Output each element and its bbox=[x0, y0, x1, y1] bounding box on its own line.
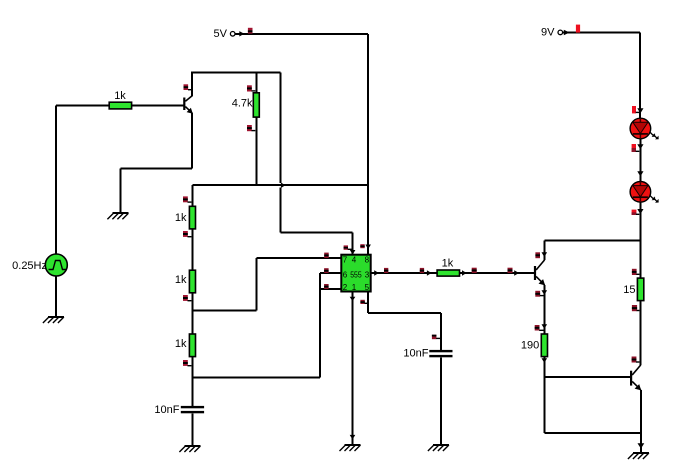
current arrow out of LED1 bbox=[637, 144, 643, 149]
pin indicator square pin3 wire left end bbox=[384, 268, 388, 273]
wire chain of resistors: rail to R3 bbox=[191, 185, 193, 206]
pin indicator square near pin 4 bbox=[344, 245, 352, 249]
resistor R7 190 (vertical) bbox=[521, 334, 548, 357]
ground (signal generator) bbox=[43, 317, 64, 323]
wire Q2 emitter down to R7 bbox=[544, 285, 546, 334]
pin indicator square R3 top bbox=[183, 196, 191, 202]
pin indicator square R4 bottom bbox=[183, 295, 191, 301]
svg-text:4: 4 bbox=[352, 255, 357, 264]
svg-text:0.25Hz: 0.25Hz bbox=[12, 260, 47, 272]
resistor R5 1k (vertical) bbox=[175, 334, 196, 357]
svg-text:1k: 1k bbox=[114, 90, 126, 102]
resistor R8 15 (vertical) bbox=[623, 278, 644, 301]
pin indicator square near pin 7 bbox=[324, 253, 329, 258]
pin indicator square LED1 cathode (half bright) bbox=[632, 144, 640, 152]
transistor Q3 (NPN) bbox=[630, 365, 641, 391]
svg-text:10nF: 10nF bbox=[403, 347, 428, 359]
wire generator to ground bbox=[55, 276, 57, 317]
pin indicator square at 5V terminal bbox=[248, 28, 253, 34]
svg-text:3: 3 bbox=[365, 270, 370, 279]
wire collector rail (top) bbox=[192, 72, 280, 74]
pin indicator square R6 out bbox=[472, 268, 477, 273]
current arrow below pin 1 bbox=[350, 297, 356, 302]
pin indicator square Q2 collector bbox=[535, 252, 540, 258]
svg-text:6: 6 bbox=[343, 270, 348, 279]
pin indicator square 4.7k bottom bbox=[247, 125, 255, 131]
wire LED rail (Q2 collector to LED column) bbox=[544, 239, 640, 241]
capacitor C2 10nF bbox=[403, 347, 452, 359]
transistor Q1 (NPN) bbox=[183, 95, 193, 113]
pin indicator square LED1 anode (bright) bbox=[632, 106, 639, 113]
pin indicator square Q2 base bbox=[508, 268, 513, 273]
wire Q1 emitter down and to ground bbox=[120, 113, 192, 213]
current arrow below Q2 emitter bbox=[542, 290, 548, 295]
current arrow into pin 4 bbox=[350, 250, 356, 255]
wire 9V rail bbox=[563, 33, 641, 119]
wire 555 pin 5 to capacitor C2 bbox=[368, 292, 441, 350]
svg-text:1: 1 bbox=[352, 283, 357, 292]
ground (Q1 emitter) bbox=[107, 213, 128, 219]
ground (Q3 emitter / LED chain) bbox=[628, 453, 649, 459]
wire Q2 collector up to LED rail bbox=[543, 240, 545, 260]
svg-text:190: 190 bbox=[521, 339, 539, 351]
LED D1 (red, lit) bbox=[630, 118, 659, 139]
svg-text:4.7k: 4.7k bbox=[232, 98, 253, 110]
pin indicator square pin3 wire right end bbox=[420, 268, 424, 273]
wire R8 to Q3 collector bbox=[640, 301, 642, 365]
current arrow out of LED2 bbox=[637, 209, 643, 214]
pin indicator square 9V terminal (bright) bbox=[576, 25, 580, 33]
pin indicator square near pin 5 bbox=[360, 300, 367, 304]
current arrow on 5V mid rail bbox=[281, 183, 286, 189]
wire LED1 to LED2 bbox=[639, 139, 641, 182]
node wire: signal generator to resistor 1k R1 bbox=[56, 105, 109, 254]
ground (C1) bbox=[179, 446, 200, 452]
wire C1 to ground bbox=[191, 413, 193, 445]
wire R7 bottom down then right (to Q3 emitter node) bbox=[544, 357, 641, 433]
capacitor C1 10nF bbox=[154, 404, 204, 416]
ground (C2) bbox=[428, 445, 449, 451]
wire tap to Q3 base bbox=[544, 376, 630, 378]
wire LED2 down through rail junction to R8 bbox=[639, 202, 641, 278]
current arrow into pin 8 bbox=[365, 245, 371, 250]
current arrow into LED1 bbox=[637, 108, 643, 113]
pin indicator square R5 bottom bbox=[183, 360, 191, 366]
wire tap to 555 pin 7 bbox=[192, 258, 341, 311]
power terminal 9V bbox=[541, 27, 569, 39]
op-amp/timer U1 555 bbox=[341, 255, 370, 292]
current arrow at 555 ground bbox=[350, 435, 356, 440]
svg-text:15: 15 bbox=[623, 284, 635, 296]
pin indicator square R8 bottom bbox=[632, 305, 640, 311]
ground (555 pin 1) bbox=[340, 445, 361, 451]
pin indicator square R3 bottom bbox=[183, 231, 191, 237]
wire R6 to Q2 base bbox=[460, 272, 535, 274]
transistor Q2 (NPN) bbox=[534, 260, 545, 286]
wire C2 to ground bbox=[440, 357, 442, 444]
pin indicator square near pin 8 bbox=[360, 244, 364, 248]
wire Q1 collector up to rail bbox=[191, 72, 193, 96]
wire R1 to Q1 base bbox=[132, 104, 184, 106]
pin indicator square near pin 6 bbox=[324, 268, 329, 273]
resistor R2 4.7k (vertical pull-up) bbox=[232, 73, 260, 186]
current arrow out of R6 bbox=[462, 270, 467, 276]
current arrow at Q3 ground bbox=[638, 443, 645, 448]
svg-text:9V: 9V bbox=[541, 27, 555, 39]
wire 555 pin 1 to ground bbox=[352, 292, 354, 445]
wire R5 to capacitor C1 (tap to pins 6,2) bbox=[191, 357, 193, 406]
pin indicator square R7 top bbox=[535, 325, 544, 331]
current arrow into R6 bbox=[427, 270, 432, 276]
wire Q3 emitter to ground bbox=[640, 390, 642, 453]
pin indicator square LED2 cathode bbox=[632, 210, 640, 215]
svg-text:5V: 5V bbox=[214, 28, 228, 40]
wire 5V vertical to 555 pin 8 bbox=[367, 34, 369, 255]
wire 5V rail top bbox=[235, 33, 368, 35]
wire 5V distribution rail (mid) bbox=[192, 184, 368, 186]
svg-text:555: 555 bbox=[350, 270, 362, 279]
pin indicator square Q2 emitter bbox=[535, 291, 543, 297]
pin indicator square 4.7k top bbox=[247, 85, 255, 91]
wire R3 to R4 bbox=[191, 229, 193, 270]
current arrow out of pin 3 bbox=[374, 270, 379, 276]
resistor R1 1k (horizontal, base drive) bbox=[109, 90, 131, 109]
wire Q1 collector to 555 reset pin 4 (crosses 5V rail with hop) bbox=[281, 73, 353, 255]
LED D2 (red, lit) bbox=[630, 182, 659, 203]
pin indicator square Q3 collector bbox=[632, 357, 640, 363]
svg-text:10nF: 10nF bbox=[154, 404, 179, 416]
signal generator 0.25Hz bbox=[12, 254, 67, 276]
pin indicator square near pin 2 bbox=[324, 284, 329, 289]
current arrow out of R7 bbox=[542, 358, 548, 363]
svg-text:1k: 1k bbox=[175, 212, 187, 224]
pin indicator square C2 top bbox=[432, 335, 440, 340]
svg-text:5: 5 bbox=[365, 283, 370, 292]
current arrow into Q2 base bbox=[514, 270, 519, 276]
svg-text:1k: 1k bbox=[175, 338, 187, 350]
resistor R4 1k (vertical) bbox=[175, 270, 196, 293]
current arrow into R7 bbox=[542, 324, 548, 329]
svg-text:1k: 1k bbox=[442, 257, 454, 269]
resistor R3 1k (vertical) bbox=[175, 206, 196, 229]
svg-text:1k: 1k bbox=[175, 274, 187, 286]
wire R4 to R5 (tap to pin 7) bbox=[191, 293, 193, 334]
wire tap to 555 pins 6 and 2 bbox=[192, 273, 341, 378]
resistor R6 1k (horizontal, base drive Q2) bbox=[437, 257, 459, 276]
current arrow into LED2 bbox=[637, 171, 643, 176]
pin indicator square Q1 collector bbox=[184, 84, 193, 90]
power terminal 5V bbox=[214, 28, 245, 40]
svg-text:8: 8 bbox=[365, 255, 370, 264]
svg-text:7: 7 bbox=[343, 255, 348, 264]
svg-text:2: 2 bbox=[343, 283, 348, 292]
pin indicator square R8 top bbox=[632, 269, 640, 275]
wire 555 pin 3 output to R6 bbox=[371, 272, 437, 274]
current arrow into Q2 collector bbox=[542, 252, 548, 257]
